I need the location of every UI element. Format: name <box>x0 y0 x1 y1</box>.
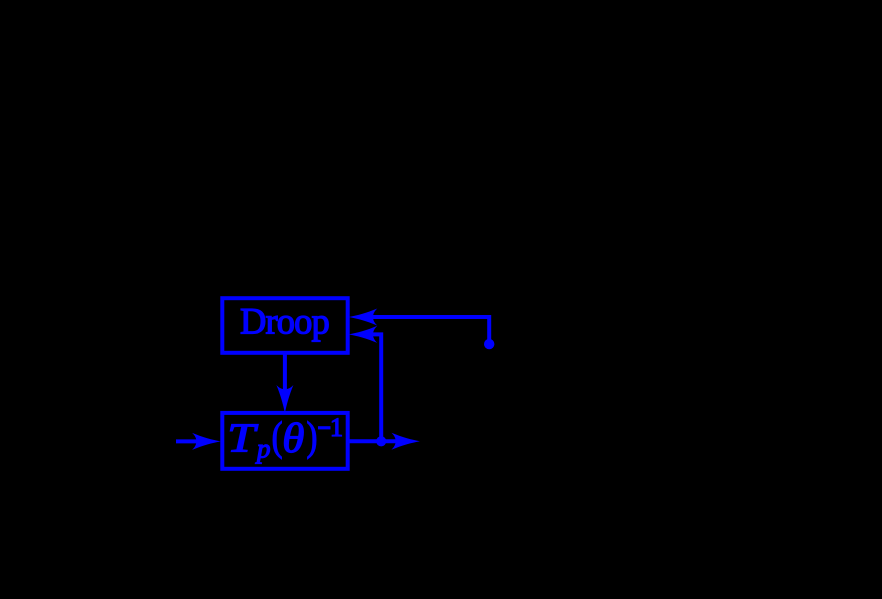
svg-text:T: T <box>227 415 259 461</box>
svg-text:Droop: Droop <box>240 300 329 341</box>
svg-text:1: 1 <box>330 413 343 442</box>
wire input (left into Tp) <box>176 439 204 443</box>
arrowhead input <box>192 433 221 450</box>
svg-text:): ) <box>307 415 318 460</box>
wire feedback upper (horizontal into Droop) <box>364 317 489 341</box>
block Droop (box) <box>222 298 347 353</box>
arrowhead down into Tp <box>276 385 293 414</box>
svg-text:θ: θ <box>282 416 304 462</box>
wire feedback lower (from junction up into Droop) <box>364 334 381 441</box>
block Tp (box) <box>222 413 347 469</box>
svg-text:p: p <box>255 434 271 464</box>
node dot at end of dangling stub <box>484 339 494 349</box>
arrowhead output <box>391 433 420 450</box>
wire output (right of Tp) <box>348 439 400 443</box>
arrowhead feedback upper into Droop <box>349 309 378 326</box>
junction dot on output wire <box>376 436 386 446</box>
label superscript minus <box>318 426 331 429</box>
svg-text:(: ( <box>272 415 283 460</box>
arrowhead feedback lower into Droop <box>349 326 378 343</box>
wire Droop to Tp (vertical) <box>283 353 287 404</box>
